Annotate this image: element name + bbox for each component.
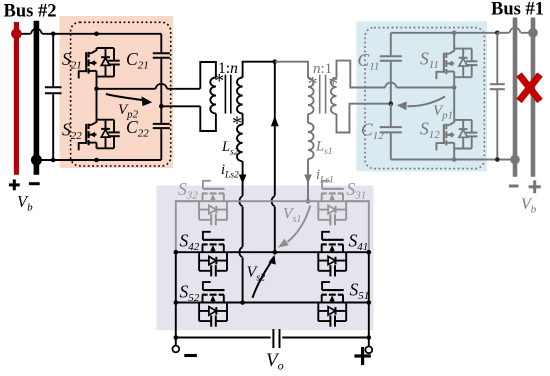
Vs1 arrow grey	[288, 206, 311, 242]
node midpoint p1	[452, 85, 457, 90]
left terminal circle	[172, 346, 179, 353]
switch S21	[79, 48, 120, 79]
node phase midpoint p2	[94, 87, 99, 92]
svg-text:Vb: Vb	[17, 192, 33, 214]
svg-text:S31: S31	[347, 179, 367, 202]
svg-text:Vb: Vb	[521, 196, 537, 216]
hop over bus1 minus rail	[510, 28, 521, 33]
background region blue DAB cell 1	[357, 21, 488, 171]
capacitor C21	[160, 34, 162, 53]
S11 drain wire	[453, 33, 455, 49]
dashed boundary cell 1	[365, 28, 484, 169]
wire to C21 branch	[97, 33, 162, 35]
node capacitor midpoint	[159, 104, 164, 109]
right terminal circle	[365, 346, 372, 353]
node right row1	[367, 250, 372, 255]
dashed boundary cell 2	[71, 22, 171, 166]
node left row2	[174, 300, 179, 305]
node S12 source	[452, 157, 457, 162]
node bus2 minus	[31, 155, 42, 166]
bus1 minus terminal label	[509, 185, 519, 188]
hop Ls2 wire over grey row	[239, 196, 242, 206]
svg-text:Ls2: Ls2	[221, 139, 239, 158]
wire cap midpoint to transformer lower	[161, 105, 200, 107]
right terminal stub	[368, 338, 370, 347]
left edge vertical	[175, 252, 177, 337]
svg-text:Bus #2: Bus #2	[4, 2, 57, 22]
node dc cap top bus1	[495, 31, 500, 36]
row1 S42-S41	[176, 251, 369, 253]
wire bus2 plus to cell top	[22, 33, 31, 35]
iLs2 arrow	[239, 175, 247, 185]
grey left drop	[176, 201, 199, 252]
switch S12	[436, 120, 477, 150]
left terminal stub	[175, 338, 177, 346]
bus2 plus terminal label	[9, 183, 20, 186]
node right rail corner	[367, 335, 372, 340]
node S22 source	[94, 158, 99, 163]
T1 core	[224, 75, 226, 114]
wire junction to T2 left winding	[275, 62, 308, 78]
transformer T2 right winding	[331, 78, 337, 114]
switch S52	[199, 282, 227, 327]
svg-text:iLs1: iLs1	[316, 167, 334, 186]
dc-link capacitor bus2	[52, 34, 54, 86]
svg-text:Vo: Vo	[266, 350, 284, 373]
transformer T2 left winding	[308, 78, 314, 114]
node center to row1	[273, 250, 278, 255]
svg-text:iLs2: iLs2	[221, 162, 239, 181]
bus1 plus terminal label	[529, 185, 541, 188]
wire midpoint to transformer upper	[97, 88, 156, 90]
node cap bottom	[51, 158, 56, 163]
node dc cap bottom bus1	[495, 157, 500, 162]
hop Ls2 wire over row1	[239, 247, 242, 257]
inductor Ls2	[237, 125, 243, 162]
node S21 drain	[94, 32, 99, 37]
S12 source wire	[453, 149, 455, 160]
grey row S32-S31	[176, 200, 369, 202]
svg-text:1:n: 1:n	[218, 60, 238, 77]
background region lavender bridge	[157, 186, 374, 331]
hop over negative rail	[31, 29, 42, 34]
Vs2 arrow	[253, 261, 272, 298]
inductor Ls1	[308, 123, 314, 159]
svg-text:Ls1: Ls1	[315, 139, 333, 158]
hop upper wire over C branch	[156, 84, 168, 89]
node bus1 minus	[510, 155, 520, 165]
wire secondary top to center node	[243, 62, 275, 78]
T2 right winding bottom lead	[337, 104, 391, 133]
hop center wire over grey row	[272, 196, 275, 206]
node left rail corner	[174, 335, 179, 340]
transformer T1 primary winding	[210, 78, 216, 114]
T2 core	[319, 75, 321, 114]
wire lower output to primary bottom	[200, 106, 216, 131]
wire S11-S12 midpoint	[453, 77, 455, 120]
wire top to bus1 plus rail	[497, 32, 509, 34]
Vp2 arrow	[106, 94, 148, 101]
right edge vertical	[368, 252, 370, 337]
wire T2 left winding to Ls1	[307, 114, 309, 123]
wire secondary bottom to Ls2	[242, 114, 244, 125]
T2 right winding top lead	[337, 61, 386, 88]
output capacitor	[272, 329, 274, 348]
switch S51	[318, 282, 346, 327]
output plus label	[354, 354, 370, 357]
node dc-link cap top	[51, 32, 56, 37]
node transformer tops junction	[273, 59, 278, 64]
wire bus2 bottom rail	[36, 159, 161, 161]
background region pink DAB cell 2	[60, 16, 174, 168]
wire S21 source to S22 drain	[96, 77, 98, 120]
iLs1 arrow	[304, 175, 312, 185]
node C midpoint	[389, 101, 394, 106]
node bus1 plus	[528, 28, 538, 38]
capacitor C22	[153, 123, 170, 125]
capacitor C11	[390, 33, 392, 55]
switch S31	[318, 181, 346, 226]
bus1 positive rail	[531, 18, 536, 177]
output rail	[176, 337, 271, 339]
switch S41	[318, 232, 346, 277]
up arrow on center wire	[271, 116, 279, 127]
row2 S52-S51	[176, 302, 369, 304]
grey right drop	[347, 201, 369, 252]
bus 2 negative rail (black)	[34, 21, 40, 175]
wire upper output to primary top	[200, 62, 216, 89]
bottom wire blue cell	[391, 159, 512, 161]
center vertical wire	[274, 62, 276, 196]
svg-text:S32: S32	[178, 179, 198, 202]
bus2 minus terminal label	[29, 182, 40, 185]
Vp1 arrow	[408, 97, 446, 107]
fault X mark	[519, 75, 540, 102]
wire Ls1 to grey row	[307, 159, 309, 201]
svg-text:Bus #1: Bus #1	[491, 0, 544, 20]
bus 2 positive rail (red)	[14, 22, 19, 175]
output minus label	[184, 354, 197, 357]
switch S42	[199, 232, 227, 277]
hop upper wire over C1 branch	[385, 83, 397, 88]
node S11 drain	[452, 31, 457, 36]
switch S32	[199, 181, 227, 226]
node left row1	[174, 250, 179, 255]
switch S11	[436, 49, 477, 80]
node bus2 plus	[11, 29, 22, 40]
node Ls1 to grey row	[306, 199, 311, 204]
top wire blue cell	[391, 32, 498, 34]
capacitor C12	[390, 104, 392, 126]
bus1 negative rail	[513, 18, 518, 177]
switch S22	[79, 120, 120, 151]
node Ls2 to row2	[240, 300, 245, 305]
wire Ls2 down to bridge	[242, 161, 244, 196]
dc-link capacitor bus1	[496, 33, 498, 83]
transformer T1 secondary winding	[237, 78, 243, 114]
node right row2	[367, 300, 372, 305]
